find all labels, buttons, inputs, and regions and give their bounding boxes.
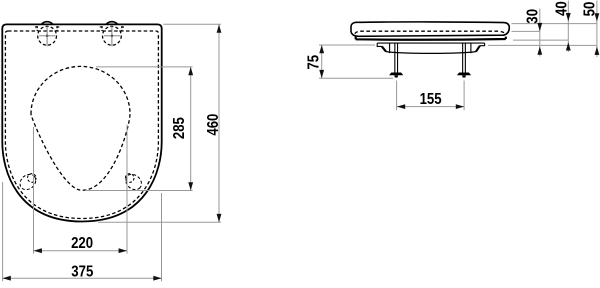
svg-text:40: 40	[554, 1, 571, 16]
left buffer pad (dashed)	[17, 171, 39, 193]
dimension 220	[34, 125, 128, 254]
svg-text:285: 285	[171, 117, 188, 139]
right hinge (top view)	[99, 22, 126, 47]
seat ring bottom edge (side view)	[356, 37, 506, 40]
dimension 30	[525, 9, 543, 57]
dimension 155	[397, 81, 465, 111]
right buffer pad (dashed)	[123, 171, 145, 193]
hinge bracket (side view)	[377, 43, 484, 53]
dimension 40	[554, 1, 571, 53]
hidden centre line of profile (dashed)	[355, 31, 506, 34]
svg-text:75: 75	[305, 54, 322, 69]
svg-text:50: 50	[582, 2, 599, 17]
svg-text:30: 30	[525, 9, 542, 24]
dimension 285	[85, 67, 193, 191]
svg-text:460: 460	[205, 114, 222, 136]
left hinge (top view)	[34, 22, 61, 47]
svg-text:155: 155	[420, 91, 442, 108]
dimension 75	[305, 45, 393, 78]
dimension 50	[582, 1, 600, 58]
svg-text:375: 375	[71, 263, 93, 280]
seat ring hidden outline (dashed, top view)	[5, 31, 158, 219]
extension lines right of side view	[488, 24, 597, 46]
left fixing bolt (side view)	[389, 43, 403, 77]
seat cover outer outline (top view)	[2, 24, 161, 221]
seat cover profile (side view)	[351, 22, 509, 36]
svg-text:220: 220	[71, 235, 93, 252]
dimension 375	[3, 182, 162, 281]
right fixing bolt (side view)	[457, 43, 471, 77]
dimension 460	[98, 24, 222, 222]
seat opening oval (dashed)	[31, 66, 130, 190]
